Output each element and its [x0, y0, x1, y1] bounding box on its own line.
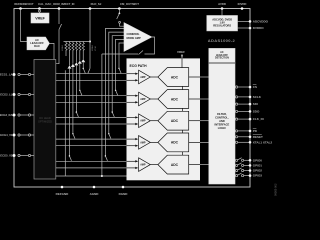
svg-text:AMP: AMP [140, 141, 146, 144]
svg-text:INTERFACE: INTERFACE [215, 122, 230, 126]
svg-text:ECG3_RA: ECG3_RA [0, 113, 12, 117]
svg-text:RESET: RESET [253, 135, 263, 139]
svg-text:VREF: VREF [35, 17, 45, 21]
svg-text:400kΩ: 400kΩ [62, 44, 64, 51]
svg-text:CAL_DAC_IO: CAL_DAC_IO [38, 2, 57, 6]
svg-text:GPIO0: GPIO0 [253, 158, 263, 162]
svg-text:REFIN/REFOUT: REFIN/REFOUT [14, 2, 34, 6]
svg-text:COMMON-: COMMON- [127, 32, 140, 36]
svg-text:AMP: AMP [140, 164, 146, 167]
svg-text:GPIO2: GPIO2 [253, 169, 263, 173]
svg-text:RLD_SJ: RLD_SJ [91, 2, 102, 6]
svg-text:ADC: ADC [171, 75, 179, 79]
svg-text:GPIO3: GPIO3 [253, 174, 263, 178]
svg-text:CLK_IO: CLK_IO [253, 117, 265, 121]
svg-text:AVDD: AVDD [218, 2, 226, 6]
svg-text:SDI: SDI [253, 102, 258, 106]
svg-text:ECG1_LA: ECG1_LA [0, 73, 12, 77]
svg-text:CS: CS [253, 85, 257, 89]
svg-text:DGND: DGND [119, 192, 129, 196]
svg-text:REGULATORS: REGULATORS [213, 24, 231, 28]
svg-text:VREF: VREF [177, 50, 185, 54]
svg-text:ECG4_V1: ECG4_V1 [0, 133, 13, 137]
svg-text:ADC: ADC [171, 141, 179, 145]
svg-text:OPTIMIZED: OPTIMIZED [38, 119, 52, 123]
svg-text:LOGIC: LOGIC [218, 126, 226, 130]
svg-text:XTAL1 XTAL2: XTAL1 XTAL2 [253, 140, 273, 144]
svg-text:MODE AMP: MODE AMP [127, 36, 141, 40]
svg-text:AND: AND [219, 119, 225, 123]
svg-text:CM_IN/WCT_IN: CM_IN/WCT_IN [56, 2, 75, 6]
svg-text:ADC: ADC [171, 97, 179, 101]
svg-text:SCLK: SCLK [253, 95, 262, 99]
svg-text:CM_OUT/WCT: CM_OUT/WCT [120, 2, 139, 6]
svg-text:ADC: ADC [171, 163, 179, 167]
svg-text:ECG2_LL: ECG2_LL [0, 93, 12, 97]
svg-text:FILTER,: FILTER, [217, 112, 227, 116]
svg-text:ADCVDDO: ADCVDDO [253, 20, 269, 24]
svg-text:SDO: SDO [253, 110, 260, 114]
svg-text:DETECTION: DETECTION [215, 57, 229, 60]
svg-text:ADAS1000-2: ADAS1000-2 [208, 38, 236, 43]
svg-text:CONTROL,: CONTROL, [215, 115, 229, 119]
svg-text:DAC: DAC [34, 44, 40, 48]
svg-text:REFGND: REFGND [56, 192, 70, 196]
svg-text:ECG PATH: ECG PATH [130, 64, 148, 68]
svg-text:400kΩ: 400kΩ [92, 44, 94, 51]
svg-text:VCM: VCM [95, 46, 97, 51]
svg-text:GPIO1: GPIO1 [253, 164, 263, 168]
svg-text:IOVDD: IOVDD [238, 2, 247, 6]
svg-text:09563-002: 09563-002 [274, 183, 278, 196]
svg-text:DVDDO: DVDDO [253, 26, 265, 30]
svg-text:ECG5_V2: ECG5_V2 [0, 154, 13, 158]
svg-text:ADC: ADC [171, 119, 179, 123]
svg-text:AGND: AGND [90, 192, 100, 196]
svg-text:AMP: AMP [140, 120, 146, 123]
svg-text:AMP: AMP [140, 76, 146, 79]
svg-text:AMP: AMP [140, 98, 146, 101]
